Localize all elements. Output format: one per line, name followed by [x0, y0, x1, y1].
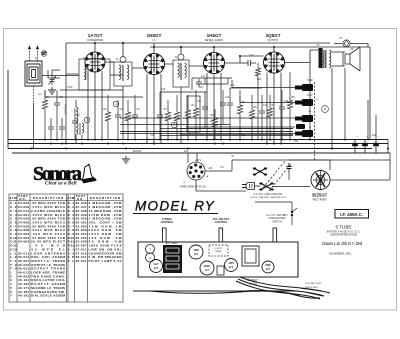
svg-text:B+90: B+90 — [307, 80, 313, 82]
svg-text:C11: C11 — [197, 100, 202, 103]
svg-text:3: 3 — [86, 118, 88, 122]
node callouts — [113, 101, 119, 107]
oscillator coil box — [79, 59, 110, 90]
svg-text:1H5GT: 1H5GT — [207, 33, 222, 38]
IF frequency box — [335, 210, 369, 219]
chassis tube 1N5GT — [189, 245, 203, 259]
svg-text:PADDER: PADDER — [64, 104, 67, 115]
chassis output trans dashed — [209, 245, 228, 256]
svg-text:B+67: B+67 — [307, 95, 313, 97]
capacitor C2 — [72, 118, 78, 126]
resistor R9 — [125, 112, 130, 121]
svg-text:C16: C16 — [249, 55, 254, 57]
wire switch to rectifier — [272, 160, 390, 187]
capacitor C8 — [59, 124, 65, 132]
speaker LS1 — [343, 47, 360, 71]
wire socket feed — [188, 153, 390, 191]
svg-text:1N5GT: 1N5GT — [147, 33, 162, 38]
wire AVC bus — [45, 62, 293, 135]
svg-text:OUTPUT: OUTPUT — [268, 38, 279, 42]
wire plate of U4 to T3 — [285, 50, 320, 63]
component value labels — [46, 84, 295, 117]
capacitor C12 — [279, 104, 285, 112]
T1 trimmer — [120, 57, 126, 63]
oscillator coil L2 — [76, 107, 78, 122]
svg-text:WIRE SIDE OF PLUG: WIRE SIDE OF PLUG — [180, 185, 206, 189]
tuning condenser — [146, 245, 155, 254]
svg-text:C12: C12 — [225, 96, 230, 99]
resistor R7 — [287, 100, 292, 109]
svg-text:A.C.-D.C. LINE CORD SW.: A.C.-D.C. LINE CORD SW. — [254, 193, 283, 196]
resistor R5 — [237, 105, 242, 114]
svg-text:I.F. 455K.C.: I.F. 455K.C. — [340, 212, 363, 217]
svg-text:DIAL SCALE ASSEM: DIAL SCALE ASSEM — [31, 294, 66, 298]
electrolytic C20 — [352, 140, 358, 154]
svg-text:GT: GT — [205, 268, 209, 272]
wire pilot lamp — [334, 44, 368, 48]
wire speaker return — [344, 68, 346, 140]
svg-text:3Q5GT: 3Q5GT — [265, 33, 280, 38]
tube U2 1N5GT — [144, 54, 165, 75]
node 17 callout — [41, 51, 47, 57]
chassis filter block — [217, 266, 224, 275]
capacitor C10 — [202, 104, 208, 112]
wire right riser — [368, 100, 388, 153]
T2 trimmer — [178, 54, 184, 60]
wire tube3 to tube4 coupling — [225, 56, 264, 63]
coupling capacitor C16 — [240, 60, 256, 66]
svg-text:DESCRIPTION: DESCRIPTION — [90, 196, 120, 200]
svg-text:MODEL RY: MODEL RY — [135, 199, 215, 214]
svg-text:GT: GT — [229, 265, 233, 269]
rectifier U5 35Z5GT — [311, 171, 330, 190]
capacitor C9 — [157, 112, 163, 120]
svg-text:PILOT LAMP 6.3V: PILOT LAMP 6.3V — [89, 259, 122, 263]
svg-text:ANT. TRANS.: ANT. TRANS. — [166, 242, 179, 245]
wire tube2 to T2 — [165, 47, 204, 66]
logo bell — [82, 164, 96, 183]
svg-text:C10: C10 — [161, 88, 166, 91]
svg-text:CONTROL: CONTROL — [215, 220, 228, 224]
svg-text:+90: +90 — [208, 167, 213, 170]
bus wires B- / filament — [8, 70, 390, 153]
svg-text:C: C — [149, 256, 151, 260]
svg-text:DETEC. AUDIO: DETEC. AUDIO — [205, 38, 223, 42]
tube U3 1H5GT — [204, 53, 225, 74]
wire T3 secondary to speaker — [331, 52, 345, 66]
svg-text:CONVERTER: CONVERTER — [87, 38, 103, 42]
chassis tube 1A7GT — [150, 260, 163, 273]
battery cable — [150, 277, 330, 299]
battery plug P1 — [295, 84, 313, 91]
wire B+ plate rail — [66, 43, 370, 140]
ground symbol — [122, 156, 130, 163]
svg-text:A-: A- — [309, 126, 312, 129]
resistor R3 — [165, 112, 170, 121]
capacitor C5 — [227, 100, 233, 108]
svg-text:+90 V: +90 V — [195, 159, 202, 162]
volume control R8 — [212, 118, 217, 127]
wire tube1 to T1 — [105, 43, 144, 68]
shelf line — [133, 290, 298, 292]
svg-text:R12: R12 — [184, 151, 189, 153]
svg-text:GT: GT — [266, 267, 270, 271]
svg-text:R13: R13 — [257, 79, 262, 81]
control shaft 3 — [273, 228, 277, 242]
svg-text:I.F.: I.F. — [152, 38, 156, 42]
svg-text:SWITCH: SWITCH — [272, 220, 282, 223]
svg-text:LEADS: LEADS — [249, 282, 257, 285]
wire junction dots — [30, 42, 389, 150]
electrolytic C22 — [373, 140, 379, 154]
resistor R11 — [185, 110, 190, 119]
battery plug P5 — [295, 130, 313, 137]
svg-text:5 TUBE: 5 TUBE — [336, 225, 352, 230]
chassis tube 3Q5GT — [262, 261, 274, 273]
chassis outline — [138, 242, 298, 277]
svg-text:DESCRIPTION: DESCRIPTION — [33, 196, 63, 200]
svg-text:1A7GT: 1A7GT — [88, 33, 103, 38]
svg-text:VOLUME CONT.: VOLUME CONT. — [305, 283, 322, 285]
battery plug P4 — [296, 124, 305, 129]
node callout A — [322, 106, 329, 113]
IF transformer T2 — [173, 60, 189, 87]
svg-text:C13: C13 — [263, 104, 268, 107]
chassis IF transformer block — [163, 245, 182, 273]
resistor R4 — [193, 108, 198, 117]
svg-text:1: 1 — [115, 102, 117, 106]
svg-text:BLACK NEG.: BLACK NEG. — [305, 286, 319, 289]
svg-text:GT: GT — [154, 266, 158, 270]
electrolytic C21 — [362, 140, 368, 154]
AC plug — [242, 183, 260, 190]
svg-text:OSC: OSC — [68, 87, 73, 89]
capacitor C4 — [132, 112, 138, 120]
svg-text:SYM: SYM — [68, 196, 75, 200]
line switch S1 — [255, 168, 266, 174]
svg-text:C18: C18 — [150, 135, 155, 137]
shield box — [187, 96, 200, 132]
svg-text:SYM: SYM — [10, 196, 18, 200]
svg-text:AVC: AVC — [199, 86, 204, 89]
power socket (wire side of plug) — [187, 162, 205, 180]
diode load wires — [192, 78, 232, 90]
chassis tube 35Z5GT — [200, 261, 214, 275]
capacitor C1 — [54, 100, 60, 108]
svg-text:ON VOL. BATTERY LEADS AT LP73: ON VOL. BATTERY LEADS AT LP73 — [250, 196, 287, 199]
wire antenna to grid — [42, 75, 79, 77]
svg-text:40-191: 40-191 — [18, 294, 29, 298]
capacitor C7 — [48, 124, 54, 132]
svg-text:C19: C19 — [241, 135, 246, 137]
svg-text:TRANS.: TRANS. — [215, 250, 222, 253]
loop antenna L1 — [25, 61, 42, 86]
chassis speaker — [242, 246, 259, 266]
IF transformer T1 — [114, 62, 132, 86]
trimmer capacitor C1 — [50, 75, 55, 85]
svg-text:2: 2 — [173, 123, 175, 127]
battery plug P2 — [295, 99, 313, 106]
svg-text:GT: GT — [194, 252, 198, 256]
more tiny value labels — [35, 38, 380, 169]
parts list table — [9, 194, 123, 302]
line switch S2 — [261, 183, 272, 189]
svg-text:SP: SP — [350, 49, 354, 51]
resistor R12 — [267, 108, 272, 117]
capacitor C24 — [287, 163, 292, 172]
svg-text:35Z5GT: 35Z5GT — [312, 193, 328, 198]
capacitor C3 — [115, 112, 121, 120]
wire battery leads — [120, 80, 295, 136]
chassis tube 1H5GT — [225, 259, 238, 272]
svg-text:NOVEMBER, 1941: NOVEMBER, 1941 — [329, 252, 352, 256]
changeover switch S2 symbol — [255, 202, 297, 225]
battery plug P3 — [295, 115, 313, 122]
svg-text:C17: C17 — [201, 76, 206, 78]
wire tube cathode/filament drops — [66, 63, 332, 149]
tube U1 1A7GT — [85, 52, 105, 72]
svg-text:OUTPUT: OUTPUT — [215, 248, 224, 250]
svg-text:RECTIFIER: RECTIFIER — [313, 197, 327, 201]
svg-text:39-011: 39-011 — [76, 259, 87, 263]
svg-text:34-064: 34-064 — [18, 240, 29, 244]
capacitor C11 — [220, 100, 226, 108]
dashed switch link — [263, 161, 291, 191]
svg-text:CONTROL: CONTROL — [161, 220, 174, 224]
output transformer T3 — [322, 50, 324, 68]
capacitor C6 — [259, 108, 265, 116]
pilot lamp — [343, 40, 350, 47]
diode cap C17 — [196, 79, 202, 87]
svg-text:C20: C20 — [372, 135, 377, 137]
svg-text:Drawn L.B. chk D.Y. Dwl: Drawn L.B. chk D.Y. Dwl — [322, 241, 363, 246]
control shaft 1 — [163, 228, 167, 242]
svg-text:17: 17 — [42, 52, 46, 56]
tube U4 3Q5GT — [264, 52, 285, 73]
resistor R1 — [42, 100, 47, 109]
resistor R2 — [105, 112, 110, 121]
svg-text:SUPERHETERODYNE: SUPERHETERODYNE — [330, 233, 357, 237]
svg-text:BUSS: BUSS — [133, 149, 141, 153]
resistor R10 — [174, 112, 179, 121]
svg-text:Clear as a Bell: Clear as a Bell — [45, 181, 77, 187]
control shaft 2 — [219, 228, 223, 242]
dashed battery cable boundary — [314, 82, 316, 160]
resistor R6 — [249, 110, 254, 119]
grid resistor R13 — [255, 68, 260, 76]
